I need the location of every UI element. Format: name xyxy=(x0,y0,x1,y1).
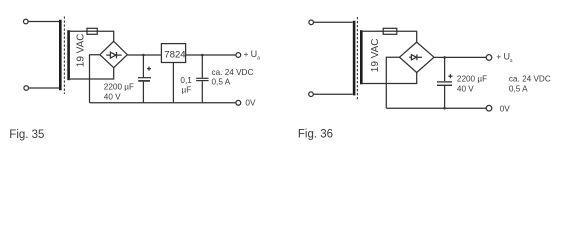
wire bridge minus to 0V rail xyxy=(386,57,399,108)
bridge rectifier B1 (diamond) xyxy=(100,41,127,67)
node: elco bottom junction xyxy=(443,107,446,110)
svg-text:0,5 A: 0,5 A xyxy=(212,77,231,86)
svg-text:7824: 7824 xyxy=(164,49,186,60)
svg-text:ca. 24 VDC: ca. 24 VDC xyxy=(212,68,254,77)
terminal top-left (primary input) xyxy=(309,20,314,25)
svg-text:40 V: 40 V xyxy=(104,92,121,101)
wire primary bottom xyxy=(313,93,352,95)
svg-text:19 VAC: 19 VAC xyxy=(370,38,381,72)
bridge rectifier B2 (diamond) xyxy=(400,42,435,72)
terminal +Ua output xyxy=(236,53,241,58)
+ rail: regulator to output xyxy=(186,54,236,56)
transformer T1 primary winding bar xyxy=(59,20,62,90)
svg-text:2200 µF: 2200 µF xyxy=(457,75,487,84)
0V rail xyxy=(90,102,236,104)
fuse F2 xyxy=(383,28,397,34)
svg-text:2200 µF: 2200 µF xyxy=(104,83,134,92)
plus mark of C3 xyxy=(448,74,452,78)
wire regulator ground pin xyxy=(172,63,174,103)
terminal bottom-left (primary input) xyxy=(309,92,314,97)
svg-text:0V: 0V xyxy=(245,98,256,107)
terminal bottom-left (primary input) xyxy=(24,86,29,91)
capacitor C3 2200µF (electrolytic) xyxy=(437,57,452,108)
wire secondary top xyxy=(70,30,87,32)
wire primary top xyxy=(28,21,59,23)
terminal top-left (primary input) xyxy=(24,19,29,24)
svg-text:40 V: 40 V xyxy=(457,84,474,93)
0V rail xyxy=(386,107,486,109)
wire primary top xyxy=(314,21,353,23)
node: elco top junction xyxy=(443,56,446,59)
wire fuse to bridge top xyxy=(97,31,113,41)
wire secondary bottom to bridge bottom corner xyxy=(363,73,417,84)
wire primary bottom xyxy=(29,87,60,89)
node: elco top junction xyxy=(142,54,145,57)
svg-text:ca. 24 VDC: ca. 24 VDC xyxy=(509,75,551,84)
+ rail: bridge to output xyxy=(434,56,486,58)
capacitor C1 2200µF (electrolytic) xyxy=(138,55,151,103)
transformer core (dashed) xyxy=(356,17,358,101)
svg-text:µF: µF xyxy=(182,86,192,95)
diode inside bridge xyxy=(106,52,121,58)
transformer core (dashed) xyxy=(63,17,65,95)
svg-text:0,1: 0,1 xyxy=(180,76,192,85)
node: C2 top junction xyxy=(201,54,204,57)
wire fuse to bridge top xyxy=(397,31,417,42)
terminal 0V output xyxy=(486,105,492,111)
svg-text:0,5 A: 0,5 A xyxy=(509,84,528,93)
svg-text:19 VAC: 19 VAC xyxy=(76,33,87,67)
wire secondary bottom to bridge bottom corner xyxy=(70,68,114,79)
wire secondary top xyxy=(363,30,384,32)
transformer T1 secondary winding bar xyxy=(67,30,70,80)
svg-text:Fig. 35: Fig. 35 xyxy=(9,129,44,141)
wire bridge minus to 0V rail xyxy=(90,55,100,103)
capacitor C2 0.1µF xyxy=(196,55,208,103)
svg-text:Fig. 36: Fig. 36 xyxy=(298,128,333,140)
transformer T2 secondary winding bar xyxy=(360,30,363,84)
svg-text:0V: 0V xyxy=(500,104,511,113)
terminal +Us output xyxy=(486,55,492,61)
plus mark of C1 xyxy=(147,67,151,71)
diode inside bridge xyxy=(409,54,422,60)
voltage regulator U1 7824 xyxy=(161,44,185,63)
terminal 0V output xyxy=(236,100,241,105)
+ rail: bridge to regulator xyxy=(127,54,161,56)
fuse F1 xyxy=(87,28,97,34)
transformer T2 primary winding bar xyxy=(353,21,356,96)
